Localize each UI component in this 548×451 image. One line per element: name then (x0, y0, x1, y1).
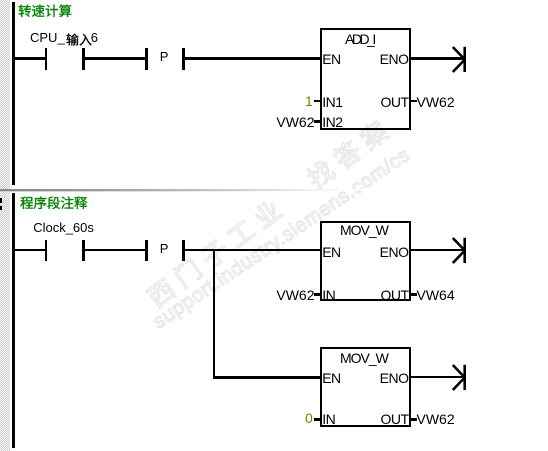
pin IN2 label (322, 114, 342, 130)
value 0 at MOV2 IN (305, 410, 312, 426)
contact CPU_输入6 right bar (82, 48, 85, 70)
pin EN label MOV1 (322, 244, 340, 260)
operand VW62 at OUT net1 (417, 94, 455, 110)
wire rail to contact net2 (15, 249, 45, 252)
pin stub IN MOV1 (314, 293, 320, 295)
pin OUT label MOV1 (289, 287, 409, 303)
branch horizontal wire to MOV_W lower (213, 376, 320, 379)
pin IN label MOV2 (322, 411, 335, 427)
pin ENO label MOV2 (289, 370, 409, 386)
pin stub OUT net1 (411, 100, 417, 102)
contact P net1 right bar (182, 48, 185, 70)
power rail network 1 (12, 2, 15, 185)
pin ENO label net1 (289, 51, 409, 67)
network separator light edge (0, 191, 300, 192)
output arrow net2 lower (450, 363, 470, 392)
label CPU_输入6 cjk 输入 (66, 33, 94, 49)
contact CPU_输入6 left bar (45, 48, 48, 70)
block title ADD_I (345, 31, 374, 47)
wire ENO to arrow MOV1 (411, 249, 464, 252)
pin stub IN1 (314, 100, 320, 102)
block title MOV_W lower (340, 350, 388, 366)
wire ENO to arrow MOV2 (411, 376, 464, 379)
label CPU_输入6 latin CPU_ (30, 30, 65, 45)
branch junction vertical wire (213, 249, 216, 379)
margin marker dash lower (0, 206, 2, 210)
wire ENO to arrow net1 (411, 57, 464, 60)
label Clock_60s (33, 220, 94, 235)
pin stub OUT MOV2 (411, 418, 417, 420)
output arrow net1 (450, 45, 470, 74)
function block ADD_I (320, 28, 411, 130)
operand VW62 at MOV2 OUT (417, 411, 455, 427)
value 1 at IN1 (305, 93, 312, 109)
contact P net1 left bar (145, 48, 148, 70)
output arrow net2 upper (450, 236, 470, 265)
contact Clock_60s left bar (45, 240, 48, 262)
watermark chinese text (143, 111, 401, 313)
power rail network 2 (12, 193, 15, 448)
network 1 title 转速计算 (18, 4, 74, 20)
contact P net2 left bar (145, 240, 148, 262)
pin OUT label net1 (289, 94, 409, 110)
contact P net1 letter (160, 49, 169, 64)
margin marker dash upper (0, 198, 2, 203)
pin EN label net1 (322, 51, 340, 67)
label CPU_输入6 digit 6 (91, 30, 98, 45)
wire rail to contact1 net1 (15, 57, 45, 60)
wire P to ADD_I EN (185, 57, 321, 60)
contact Clock_60s right bar (82, 240, 85, 262)
pin stub OUT MOV1 (411, 293, 417, 295)
network 2 title 程序段注释 (20, 196, 90, 212)
function block MOV_W lower (320, 347, 411, 427)
pin EN label MOV2 (322, 370, 340, 386)
watermark url text (149, 144, 414, 333)
contact P net2 letter (160, 241, 169, 256)
pin ENO label MOV1 (289, 244, 409, 260)
pin OUT label MOV2 (289, 411, 409, 427)
pin stub IN2 (314, 120, 320, 122)
operand VW62 at IN2 (195, 114, 315, 130)
left margin hatch strip (0, 0, 10, 451)
wire P to MOV_W upper EN (185, 249, 321, 252)
block title MOV_W upper (340, 222, 388, 238)
pin IN label MOV1 (322, 287, 335, 303)
network separator line (0, 189, 400, 191)
pin stub IN MOV2 (314, 418, 320, 420)
pin IN1 label (322, 94, 342, 110)
function block MOV_W upper (320, 221, 411, 301)
contact P net2 right bar (182, 240, 185, 262)
wire contact1 to P net1 (85, 57, 146, 60)
operand VW62 at MOV1 IN (195, 287, 315, 303)
operand VW64 at MOV1 OUT (417, 287, 455, 303)
wire contact to P net2 (85, 249, 146, 252)
